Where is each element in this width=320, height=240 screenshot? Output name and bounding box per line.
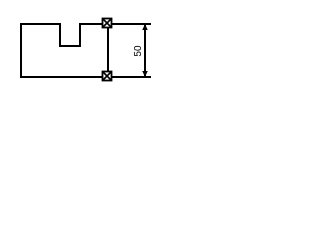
svg-text:50: 50 bbox=[133, 45, 144, 57]
